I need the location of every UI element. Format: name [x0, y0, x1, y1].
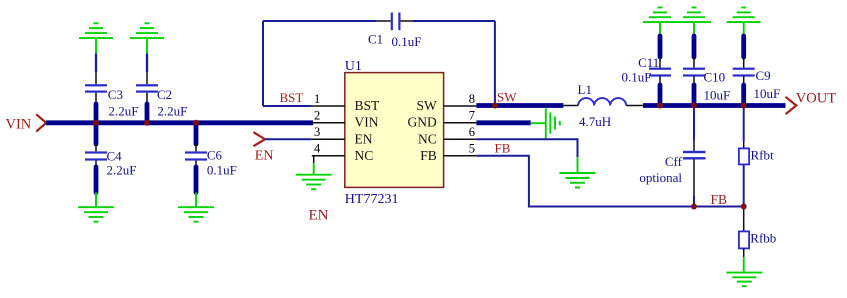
wire BST loop top right segment — [413, 20, 495, 22]
wire pin6 green stem — [577, 157, 579, 173]
svg-text:0.1uF: 0.1uF — [622, 70, 652, 85]
node VIN-C2 junction — [144, 120, 150, 126]
wire pin4 stub — [313, 156, 315, 163]
power symbol GND rotated earth — [546, 108, 560, 138]
power symbol above C2 — [130, 23, 164, 55]
ground below C4 — [78, 193, 114, 222]
svg-text:optional: optional — [639, 170, 682, 185]
svg-text:Rfbb: Rfbb — [750, 231, 776, 246]
port VOUT — [786, 90, 837, 114]
inductor L1 — [563, 82, 643, 129]
ground at pin4 — [296, 175, 332, 190]
wire BST loop right vertical — [494, 21, 496, 106]
pin 4 NC — [312, 141, 373, 163]
svg-text:1: 1 — [314, 92, 320, 106]
pin 3 EN — [312, 125, 373, 146]
svg-text:NC: NC — [418, 131, 437, 146]
wire pin4 to ground — [313, 163, 315, 175]
power symbol above C10 — [677, 8, 711, 37]
svg-text:EN: EN — [355, 131, 373, 146]
capacitor C1 — [368, 13, 421, 50]
wire pin6 NC to ground — [476, 139, 577, 157]
svg-text:2: 2 — [314, 108, 320, 122]
ground below C6 — [178, 193, 214, 222]
ground below Rfbb — [726, 273, 762, 287]
pin 5 FB — [420, 141, 476, 163]
svg-text:FB: FB — [711, 192, 728, 207]
resistor Rfbb — [739, 207, 776, 258]
node VOUT-C10 junction — [691, 103, 697, 109]
svg-text:GND: GND — [408, 115, 437, 130]
pin 2 VIN — [312, 108, 379, 129]
svg-text:HT77231: HT77231 — [345, 192, 399, 207]
pin 1 BST — [312, 92, 380, 113]
svg-text:C3: C3 — [108, 87, 123, 102]
svg-text:C2: C2 — [157, 87, 172, 102]
node VIN-C3 junction — [93, 120, 99, 126]
capacitor C9 — [733, 36, 781, 106]
port VIN — [6, 114, 47, 132]
wire BST to pin1 — [263, 105, 312, 107]
svg-text:2.2uF: 2.2uF — [107, 163, 137, 178]
svg-text:BST: BST — [355, 98, 381, 113]
wire EN to pin3 — [265, 138, 312, 140]
svg-text:C11: C11 — [638, 55, 659, 70]
svg-text:10uF: 10uF — [704, 88, 731, 103]
IC U1 HT77231 — [345, 59, 444, 207]
node SW-C1 junction — [492, 103, 498, 109]
svg-text:10uF: 10uF — [754, 86, 781, 101]
node FB-Rfb junction — [741, 204, 747, 210]
power symbol above C11 — [643, 8, 677, 37]
ground at pin6 — [560, 173, 596, 188]
capacitor C6 — [185, 123, 237, 193]
svg-text:FB: FB — [495, 141, 511, 156]
svg-text:VOUT: VOUT — [796, 90, 836, 106]
svg-text:C10: C10 — [704, 70, 726, 85]
svg-text:8: 8 — [469, 92, 475, 106]
wire SW bus — [476, 103, 563, 108]
svg-text:5: 5 — [469, 141, 475, 155]
svg-text:4: 4 — [314, 141, 321, 155]
svg-text:EN: EN — [255, 148, 274, 163]
svg-text:U1: U1 — [345, 59, 362, 74]
capacitor C3 — [85, 54, 138, 123]
node FB-Cff junction — [691, 204, 697, 210]
capacitor C10 — [683, 36, 730, 106]
node VIN-C6 junction — [193, 120, 199, 126]
svg-text:3: 3 — [314, 125, 320, 139]
svg-text:Rfbt: Rfbt — [751, 148, 775, 163]
wire Rfbb to ground — [743, 257, 745, 273]
svg-text:C6: C6 — [207, 148, 223, 163]
svg-text:4.7uH: 4.7uH — [579, 114, 611, 129]
capacitor C4 — [85, 123, 136, 193]
svg-text:L1: L1 — [578, 82, 592, 97]
capacitor Cff — [639, 106, 705, 207]
svg-text:VIN: VIN — [355, 115, 379, 130]
node VOUT-C11 junction — [657, 103, 663, 109]
svg-text:0.1uF: 0.1uF — [392, 34, 422, 49]
wire BST loop left vertical — [262, 21, 264, 106]
svg-text:FB: FB — [420, 148, 437, 163]
svg-text:0.1uF: 0.1uF — [207, 163, 237, 178]
svg-text:SW: SW — [497, 90, 517, 105]
svg-text:Cff: Cff — [665, 154, 683, 169]
pin 7 GND — [408, 108, 477, 129]
svg-text:VIN: VIN — [6, 116, 32, 132]
wire GND bus pin7 — [476, 120, 530, 125]
svg-text:C9: C9 — [756, 68, 771, 83]
node VOUT-C9 junction — [741, 103, 747, 109]
svg-text:NC: NC — [355, 148, 374, 163]
svg-text:7: 7 — [469, 108, 475, 122]
svg-text:BST: BST — [280, 90, 304, 105]
svg-text:SW: SW — [417, 98, 438, 113]
svg-text:C4: C4 — [107, 149, 123, 164]
capacitor C2 — [136, 54, 187, 123]
power symbol above C9 — [727, 8, 761, 37]
wire GND green stub — [531, 122, 546, 124]
pin 6 NC — [418, 125, 476, 146]
capacitor C11 — [622, 36, 671, 106]
svg-text:C1: C1 — [368, 32, 383, 47]
pin 8 SW — [417, 92, 477, 113]
wire VIN bus — [46, 120, 313, 125]
svg-text:EN: EN — [309, 208, 329, 224]
svg-text:2.2uF: 2.2uF — [109, 104, 139, 119]
resistor Rfbt — [739, 106, 774, 207]
port EN — [253, 132, 273, 163]
svg-text:2.2uF: 2.2uF — [157, 104, 187, 119]
svg-text:6: 6 — [469, 125, 475, 139]
wire FB from pin5 — [476, 156, 743, 207]
wire VOUT bus — [643, 103, 786, 108]
wire BST loop top left segment — [263, 20, 377, 22]
power symbol above C3 — [79, 23, 113, 55]
